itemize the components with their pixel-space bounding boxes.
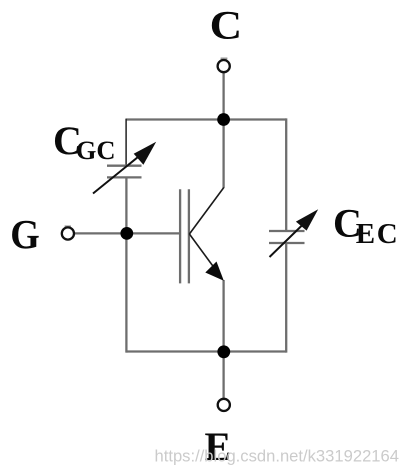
wire: bottom node to E terminal	[222, 352, 224, 399]
label C_EC	[333, 200, 399, 250]
terminal C open circle	[218, 60, 230, 72]
capacitor C_GC variable arrow	[93, 142, 156, 194]
wire: box top edge	[126, 118, 286, 120]
terminal C circle top flat mark	[221, 58, 228, 60]
node: gate junction dot	[120, 227, 133, 240]
node: bottom junction dot	[217, 345, 230, 358]
terminal G open circle	[62, 227, 74, 239]
wire: box left edge lower (C_GC plate to bottom corner)	[125, 178, 127, 353]
IGBT Q1 collector diagonal	[189, 188, 223, 235]
IGBT Q1 emitter diagonal	[189, 234, 218, 273]
wire: box left edge upper (top corner to C_GC plate, thin dark lead)	[125, 119, 127, 165]
terminal G circle top flat mark	[65, 225, 71, 227]
svg-text:EC: EC	[356, 218, 400, 250]
wire: box right edge lower (C_EC plate to bottom corner)	[285, 243, 287, 353]
IGBT Q1 gate bar 2	[188, 189, 190, 283]
wire: box bottom edge	[126, 350, 286, 352]
terminal E open circle	[218, 399, 230, 411]
wire: C terminal to top node	[222, 73, 224, 120]
IGBT Q1 emitter arrowhead	[205, 262, 224, 281]
node: top junction dot	[217, 113, 230, 126]
capacitor C_GC plates	[107, 166, 142, 178]
label C_GC	[53, 118, 116, 165]
svg-text:https://blog.csdn.net/k3319221: https://blog.csdn.net/k331922164	[155, 447, 399, 466]
capacitor C_EC variable arrow	[270, 209, 319, 257]
svg-text:G: G	[10, 211, 40, 257]
wire: emitter lead from IGBT down to bottom node	[222, 280, 224, 352]
wire: collector lead from top node down to IGBT	[222, 120, 224, 189]
wire: box right edge upper (top corner to C_EC plate)	[285, 118, 287, 230]
svg-text:C: C	[210, 2, 243, 47]
wire: gate lead G terminal to G node and on to IGBT gate	[73, 232, 179, 234]
svg-text:GC: GC	[76, 135, 116, 165]
IGBT Q1 gate bar 1	[179, 189, 181, 283]
capacitor C_EC plates	[269, 231, 305, 243]
